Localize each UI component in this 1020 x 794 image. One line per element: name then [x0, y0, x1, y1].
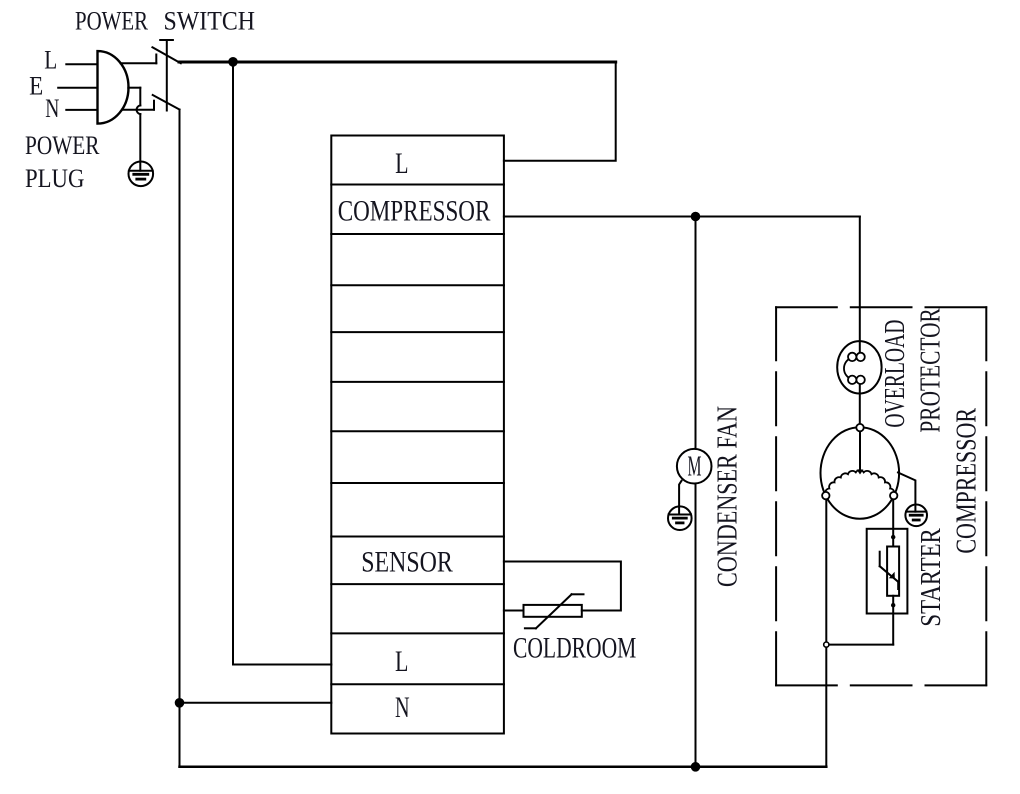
svg-text:SENSOR: SENSOR — [361, 546, 453, 579]
svg-text:COMPRESSOR: COMPRESSOR — [338, 194, 491, 227]
svg-text:CONDENSER FAN: CONDENSER FAN — [711, 406, 743, 587]
svg-text:POWER: POWER — [25, 131, 100, 160]
svg-text:COMPRESSOR: COMPRESSOR — [950, 407, 982, 553]
svg-text:POWER: POWER — [75, 7, 149, 36]
svg-text:N: N — [395, 691, 410, 724]
svg-text:E: E — [29, 71, 43, 100]
svg-text:N: N — [45, 94, 59, 123]
svg-text:M: M — [688, 452, 702, 483]
svg-text:STARTER: STARTER — [915, 528, 947, 627]
svg-text:PROTECTOR: PROTECTOR — [914, 308, 946, 433]
svg-text:L: L — [44, 45, 57, 74]
svg-text:COLDROOM: COLDROOM — [513, 632, 636, 665]
svg-text:OVERLOAD: OVERLOAD — [879, 320, 911, 428]
svg-text:PLUG: PLUG — [25, 164, 84, 193]
svg-text:L: L — [395, 147, 408, 180]
svg-text:L: L — [395, 645, 408, 678]
svg-text:SWITCH: SWITCH — [164, 7, 256, 36]
